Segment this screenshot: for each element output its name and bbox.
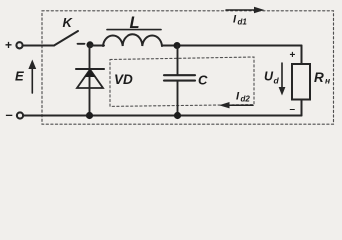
svg-text:VD: VD [114, 72, 133, 87]
switch K blade [54, 31, 78, 46]
arrow U_d (down, across load) [279, 63, 286, 96]
diode VD filled apex [85, 69, 96, 77]
svg-text:E: E [15, 69, 24, 84]
svg-text:н: н [325, 76, 330, 86]
svg-text:+: + [290, 50, 296, 61]
svg-text:R: R [314, 70, 324, 85]
wire inductor to node B and to load corner [162, 45, 302, 47]
bottom rail wire [24, 115, 302, 117]
svg-text:+: + [5, 38, 12, 52]
node A junction dot [87, 41, 94, 48]
load resistor Rn body [292, 64, 310, 100]
arrow I_d1 (top, right) [226, 7, 265, 13]
svg-text:C: C [198, 73, 208, 88]
svg-text:K: K [63, 15, 74, 30]
outer dashed boundary box [42, 11, 334, 124]
wire node A to inductor [90, 45, 104, 47]
svg-text:d1: d1 [238, 18, 248, 27]
terminal + (input positive) [16, 42, 22, 48]
terminal - (input negative) [17, 112, 23, 118]
inductor core bar [107, 29, 161, 31]
capacitor C bottom lead [177, 81, 179, 116]
inner dashed box around VD and C [110, 57, 254, 106]
svg-text:d2: d2 [241, 95, 251, 104]
wire resistor bottom to rail [301, 100, 303, 116]
inductor L coil arcs [103, 34, 162, 46]
capacitor C top plate [164, 74, 195, 76]
wire down to load resistor [301, 46, 303, 64]
arrow I_d2 (inner box bottom, left) [219, 102, 253, 108]
node B junction dot [174, 42, 181, 49]
junction dot capacitor-bottom [174, 112, 181, 119]
wire from + terminal to switch [23, 45, 54, 47]
svg-text:–: – [290, 104, 296, 115]
capacitor C top lead [177, 46, 179, 76]
diode VD lead wire [89, 46, 91, 116]
capacitor C bottom plate [164, 80, 195, 82]
svg-text:d: d [274, 76, 280, 86]
svg-text:L: L [130, 14, 140, 32]
diode VD triangle outline [77, 70, 103, 89]
diode VD cathode bar [76, 68, 104, 70]
junction dot diode-bottom [86, 112, 93, 119]
switch fixed contact stub [78, 43, 85, 45]
arrow E (source emf, up) [28, 60, 36, 94]
svg-text:–: – [6, 107, 13, 122]
svg-text:U: U [264, 70, 274, 84]
